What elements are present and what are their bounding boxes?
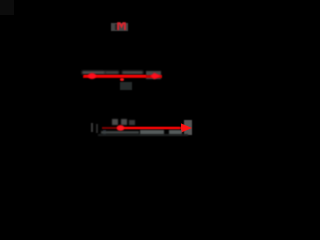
wire — [169, 130, 182, 135]
node E — [103, 130, 106, 136]
wire — [105, 71, 119, 74]
wire — [82, 71, 105, 74]
wire — [122, 71, 143, 74]
wire — [140, 130, 164, 135]
wire — [98, 134, 188, 136]
diode D1 — [180, 122, 193, 134]
wire — [102, 127, 119, 129]
wire — [117, 127, 183, 130]
wire — [122, 127, 180, 129]
wire — [129, 120, 135, 125]
wire — [112, 119, 118, 125]
resistor R2 — [184, 120, 192, 135]
node B — [88, 73, 97, 79]
op-amp U1 — [111, 23, 128, 31]
wire — [84, 75, 146, 77]
wire — [101, 131, 139, 135]
wire — [121, 119, 127, 125]
node A — [0, 0, 14, 15]
node D — [117, 125, 125, 131]
node C — [150, 72, 162, 80]
wire — [83, 75, 162, 78]
transistor Q1 — [117, 22, 128, 31]
resistor R1 — [146, 71, 161, 80]
wire — [91, 123, 93, 132]
op-amp U1 pin 1 — [115, 24, 118, 31]
junction J1 — [120, 78, 124, 82]
wire — [96, 124, 98, 134]
capacitor C1 — [120, 82, 132, 91]
